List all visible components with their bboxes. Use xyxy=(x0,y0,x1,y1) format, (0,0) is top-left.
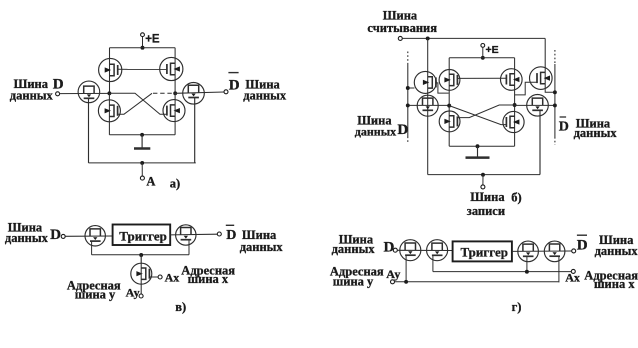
transistor VT12 right driver (fig b) xyxy=(503,111,524,132)
wire left read source stub to bus D (fig b) xyxy=(408,87,415,89)
svg-text:шина х: шина х xyxy=(188,272,229,286)
svg-text:Шина: Шина xyxy=(470,190,505,204)
wire right read source stub to bus D-bar (fig b) xyxy=(545,90,555,93)
svg-text:считывания: считывания xyxy=(367,21,437,35)
wire VT20 gate down to x-wire (fig g) xyxy=(526,256,528,272)
wire left cell column (fig b) xyxy=(448,58,450,146)
svg-text:данных: данных xyxy=(240,240,284,254)
terminal Ay (fig g) xyxy=(391,280,395,284)
transistor VT5 left driver (fig a) xyxy=(98,100,120,122)
figure a) 6-transistor static memory cell xyxy=(10,33,287,191)
wire right column top vertical (fig b) xyxy=(544,38,546,89)
transistor VT21 (fig g) xyxy=(544,241,565,262)
svg-text:+E: +E xyxy=(486,44,499,56)
node bus D read junction (fig b) xyxy=(406,86,410,90)
wire right cell column (fig b) xyxy=(514,58,516,146)
transistor VT6 right driver (fig a) xyxy=(163,100,185,122)
wire VT17 gate to Ax terminal (fig v) xyxy=(149,276,158,278)
node 1 junction (fig a) xyxy=(107,91,111,95)
wire +E rail (fig b) xyxy=(449,57,514,59)
svg-text:A: A xyxy=(146,175,155,189)
wire cross-coupling right node to VT11 gate (fig b) xyxy=(457,105,514,118)
node read bus junction (fig b) xyxy=(426,36,430,40)
transistor VT4 right pass (fig a) xyxy=(183,83,205,105)
wire right load drain from rail (fig a) xyxy=(174,48,176,94)
svg-text:D: D xyxy=(226,228,236,243)
transistor VT13 right read (fig b) xyxy=(530,67,553,90)
transistor VT17 select FET (fig v) xyxy=(131,263,152,284)
svg-text:шина у: шина у xyxy=(75,287,116,301)
svg-text:б): б) xyxy=(511,191,521,205)
wire left column vertical (fig b) xyxy=(427,38,429,174)
wire source rail (fig b) xyxy=(449,145,514,147)
transistor VT9 left load (fig b) xyxy=(439,70,460,91)
transistor VT11 left driver (fig b) xyxy=(439,111,460,132)
wire D to trigger (fig v) xyxy=(65,235,112,237)
overbar of D (fig g right) xyxy=(577,234,587,236)
svg-text:записи: записи xyxy=(467,204,505,218)
transistor VT1 left load (fig a) xyxy=(99,58,122,81)
svg-text:D: D xyxy=(397,122,408,138)
svg-text:Ах: Ах xyxy=(565,270,580,284)
transistor VT16 right gate FET (fig v) xyxy=(176,225,196,245)
svg-text:г): г) xyxy=(512,300,522,314)
node bus D-bar pass junction (fig b) xyxy=(553,103,557,107)
wire node2 to right pass and terminal (fig a) xyxy=(175,92,224,93)
block trigger (fig g) xyxy=(453,241,512,261)
overbar of D (fig b right) xyxy=(560,116,567,118)
svg-text:Ау: Ау xyxy=(386,267,400,281)
svg-text:+E: +E xyxy=(145,34,160,46)
svg-text:в): в) xyxy=(175,300,186,314)
wire left read gate jog (fig b) xyxy=(436,83,449,93)
transistor VT2 right load (fig a) xyxy=(160,57,183,80)
wire address y (fig g) xyxy=(395,281,559,284)
svg-text:шина у: шина у xyxy=(333,275,374,289)
wire +E rail (fig a) xyxy=(110,47,176,49)
svg-text:D: D xyxy=(229,77,240,93)
svg-text:шина х: шина х xyxy=(594,277,635,291)
wire D row left (fig g) xyxy=(397,249,452,251)
transistor VT7 left read (fig b) xyxy=(414,71,436,93)
wire right read gate jog (fig b) xyxy=(515,82,538,95)
wire +E stem (fig b) xyxy=(482,47,484,57)
wire VT21 gate down to y-wire (fig g) xyxy=(558,256,560,282)
wire left pass gate down (fig a) xyxy=(88,98,90,163)
wire trigger to VT16 (fig v) xyxy=(170,233,217,236)
terminal D (fig v) xyxy=(61,234,65,238)
terminal D (fig g) xyxy=(393,248,397,252)
wire write bus bottom (fig b) xyxy=(428,174,540,176)
node bus D-bar read junction (fig b) xyxy=(553,90,557,94)
node ground junction (fig a) xyxy=(140,133,144,137)
node select junction (fig v) xyxy=(139,253,143,257)
transistor VT14 right pass (fig b) xyxy=(527,95,549,117)
block trigger (fig v) xyxy=(113,225,171,246)
svg-text:D: D xyxy=(384,240,395,256)
transistor VT10 right load (fig b) xyxy=(501,69,523,91)
terminal D-bar (fig a) xyxy=(224,90,228,94)
svg-text:D: D xyxy=(577,238,588,254)
wire address x (fig g) xyxy=(433,271,571,273)
node VT20 gate junction (fig g) xyxy=(525,270,529,274)
svg-text:Ах: Ах xyxy=(165,270,180,284)
svg-text:данных: данных xyxy=(10,88,54,102)
terminal +E (fig a) xyxy=(141,33,145,37)
node ground junction (fig b) xyxy=(476,144,480,148)
figure v) memory cell with trigger block, two-coordinate select xyxy=(5,220,284,314)
terminal +E (fig b) xyxy=(481,44,485,48)
wire row select horizontal (fig v) xyxy=(92,254,189,256)
wire cross-coupling node1 to VT6 gate (fig a) xyxy=(109,93,167,114)
terminal D-bar (fig v) xyxy=(217,232,221,236)
bus D vertical line (fig b) xyxy=(407,64,409,137)
terminal D (fig a) xyxy=(56,92,60,96)
node junction +E on rail (fig a) xyxy=(141,46,145,50)
wire load gates interconnect (fig a) xyxy=(118,68,167,70)
wire VT18 gate down to y-wire (fig g) xyxy=(405,255,407,282)
wire VT19 gate down to x-wire (fig g) xyxy=(432,255,434,272)
wire trigger to right FETs (fig g) xyxy=(512,250,572,252)
overbar of D (fig a right) xyxy=(228,72,238,74)
svg-text:данных: данных xyxy=(332,242,376,256)
wire read bus top (fig b) xyxy=(402,37,545,39)
svg-text:а): а) xyxy=(170,176,180,190)
node bus D pass junction (fig b) xyxy=(406,103,410,107)
svg-text:данных: данных xyxy=(574,126,618,140)
bus D-bar vertical line (fig b) xyxy=(554,64,556,137)
figure g) memory cell with trigger block, series select FETs xyxy=(330,232,638,314)
svg-text:данных: данных xyxy=(355,124,396,138)
wire write bus stem (fig b) xyxy=(482,175,484,185)
wire address select loop (fig a) xyxy=(89,162,196,164)
terminal write bus (fig b) xyxy=(481,185,485,189)
wire cross-coupling left node to VT12 gate (fig b) xyxy=(449,106,506,125)
terminal D-bar (fig g) xyxy=(572,249,576,253)
transistor VT15 left gate FET (fig v) xyxy=(85,226,105,246)
wire cross-coupling node2 to VT5 gate (fig a) xyxy=(117,93,152,114)
node 2 junction (fig a) xyxy=(173,91,177,95)
node write bus junction (fig b) xyxy=(481,173,485,177)
terminal Ay (fig v) xyxy=(139,294,143,298)
transistor VT20 (fig g) xyxy=(518,241,539,262)
wire select stem (fig v) xyxy=(140,255,142,263)
node right cell node (fig b) xyxy=(513,103,517,107)
svg-text:D: D xyxy=(50,227,61,243)
terminal A (fig a) xyxy=(140,176,144,180)
transistor VT8 left pass (fig b) xyxy=(417,95,438,116)
wire left load drain from rail (fig a) xyxy=(109,48,111,94)
transistor VT19 (fig g) xyxy=(427,240,448,261)
wire to terminal A (fig a) xyxy=(141,163,143,176)
transistor VT18 (fig g) xyxy=(400,240,421,261)
overbar of D (fig v right) xyxy=(226,224,234,226)
wire +E stem (fig a) xyxy=(142,37,144,48)
svg-text:Ау: Ау xyxy=(126,285,140,299)
node left cell node (fig b) xyxy=(447,104,451,108)
svg-text:данных: данных xyxy=(595,244,638,258)
wire VT16 gate down (fig v) xyxy=(188,239,190,255)
transistor VT3 left pass (fig a) xyxy=(78,81,100,103)
figure b) memory cell with separate read/write buses xyxy=(355,8,618,218)
wire dashed segment node2 (fig a) xyxy=(153,92,175,94)
svg-text:Триггер: Триггер xyxy=(461,244,509,259)
wire right pass gate down (fig b) xyxy=(539,110,541,175)
bus D dotted continuation top (fig b) xyxy=(407,52,409,64)
terminal Ax (fig g) xyxy=(571,269,575,273)
wire source rail (fig a) xyxy=(109,134,175,136)
wire VT15 gate down (fig v) xyxy=(91,241,93,255)
bus D dotted continuation bottom (fig b) xyxy=(407,137,409,144)
svg-text:Триггер: Триггер xyxy=(119,228,167,243)
ground symbol (fig b) xyxy=(477,146,479,156)
bus D-bar dotted continuation top (fig b) xyxy=(554,50,556,64)
svg-text:данных: данных xyxy=(243,88,287,102)
svg-text:данных: данных xyxy=(5,231,49,245)
wire load gates interconnect (fig b) xyxy=(457,77,506,79)
node address junction (fig a) xyxy=(140,161,144,165)
svg-text:D: D xyxy=(53,77,64,93)
terminal Ax (fig v) xyxy=(158,275,162,279)
terminal read bus (fig b) xyxy=(398,36,402,40)
wire data line D to node A1 (fig a) xyxy=(60,92,110,94)
bus D-bar dotted continuation bottom (fig b) xyxy=(554,137,556,145)
svg-text:D: D xyxy=(559,120,569,135)
ground symbol (fig a) xyxy=(141,135,143,148)
node +E rail junction (fig b) xyxy=(481,56,485,60)
wire right pass gate down (fig a) xyxy=(194,97,196,163)
node VT18 gate junction (fig g) xyxy=(404,280,408,284)
